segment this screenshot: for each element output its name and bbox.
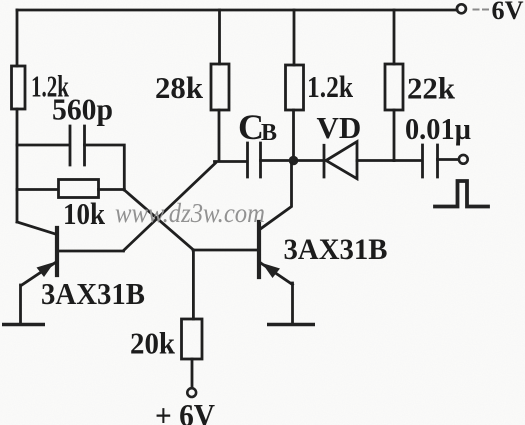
wire -6V top rail [17,9,457,12]
ground Q1 [2,323,45,327]
resistor R6 20k [182,319,203,359]
wire diode to 22k [357,159,394,162]
wire 560p branch left [17,144,70,147]
svg-text:+ 6V: + 6V [155,397,215,425]
label 10k [63,196,106,231]
label 0.01u [405,111,471,146]
label 1.2k right [307,69,354,104]
svg-text:0.01µ: 0.01µ [405,111,471,146]
label VD [317,110,362,145]
resistor R2 10k [59,180,99,198]
svg-text:www.dz3w.com: www.dz3w.com [115,198,265,228]
wire 1.2k right bottom stub [292,110,295,156]
resistor R1 1.2k left [12,66,26,109]
ground Q2 [267,323,315,327]
transistor Q2 base bar [257,222,261,277]
pulse symbol [435,181,488,207]
capacitor CB [248,143,261,177]
wire Q2 emitter vertical [291,283,294,323]
resistor R4 1.2k right [286,65,304,110]
wire node to diode [296,159,322,162]
label 28k [155,70,204,105]
wire Q2 collector [261,163,292,229]
transistor Q2 emitter with arrow [262,263,293,285]
wire 10k branch left [17,188,58,191]
wire cross-coupling to Q2 base [124,190,193,250]
wire Q1 emitter vertical [19,285,22,323]
wire left vertical lower (R1 to Q1 collector) [16,109,19,222]
wire 1.2k right top stub [293,10,296,65]
diode VD [324,142,357,179]
svg-text:20k: 20k [130,326,176,361]
wire cross-coupling to Q1 base [124,163,216,251]
label -6V [473,0,524,25]
svg-text:B: B [261,120,277,146]
transistor Q1 emitter with arrow [21,262,56,286]
wire Q1 collector diagonal [17,222,56,234]
svg-text:3AX31B: 3AX31B [284,233,388,266]
wire 22k top stub [393,10,396,64]
capacitor C1 560p [70,126,85,165]
label 560p [52,92,113,127]
wire Q1 base horizontal [59,250,124,253]
svg-text:22k: 22k [407,71,456,106]
terminal -6V [457,4,466,13]
wire CB right to node [261,159,292,162]
resistor R3 28k [211,64,229,110]
wire 560p branch right [85,145,125,190]
wire 10k branch right [99,188,125,191]
wire 22k bottom stub [393,110,396,161]
wire 22k to C2 [394,159,421,162]
svg-text:VD: VD [317,110,362,145]
wire 20k top [192,250,195,319]
capacitor C2 0.01u [423,145,438,177]
svg-text:6V: 6V [492,0,524,25]
label Q2 3AX31B [284,233,388,266]
watermark www.dz3w.com [115,198,265,228]
svg-text:1.2k: 1.2k [307,69,354,104]
svg-text:28k: 28k [155,70,204,105]
label 22k [407,71,456,106]
label 20k [130,326,176,361]
svg-text:560p: 560p [52,92,113,127]
label +6V [155,397,215,425]
wire C2 to output terminal [438,158,459,161]
terminal trigger input [459,155,468,164]
wire 28k bottom stub [215,110,247,162]
terminal +6V [187,388,196,397]
svg-text:10k: 10k [63,196,106,231]
wire 28k top stub [218,10,221,64]
svg-text:3AX31B: 3AX31B [41,276,145,311]
transistor Q1 base bar [55,228,59,275]
node junction dot [289,156,299,166]
label CB [238,107,277,147]
resistor R5 22k [385,64,403,110]
wire Q2 base horizontal [193,249,257,252]
wire left vertical upper (rail to R1) [16,10,19,66]
label 1.2k left [31,69,70,104]
wire 20k bottom [191,359,194,388]
label Q1 3AX31B [41,276,145,311]
